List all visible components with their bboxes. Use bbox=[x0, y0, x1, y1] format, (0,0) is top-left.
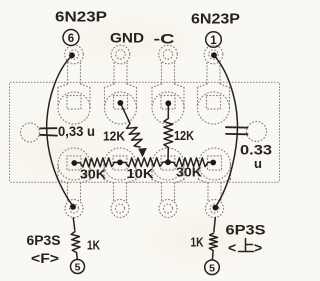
junction dot: bottom lug 4 square bbox=[210, 160, 216, 166]
tag board outline bbox=[10, 82, 280, 182]
junction dot: pin1 lug eyelet bbox=[211, 52, 217, 58]
value label 12K (diagonal resistor) bbox=[103, 129, 126, 144]
label <F> bbox=[31, 250, 59, 266]
resistor 1K (left, to 6P3S F grid pin 5) bbox=[71, 218, 80, 259]
junction dot: GND lug square hole bbox=[118, 100, 124, 106]
top lug 1 (6N23P pin 6) bbox=[58, 45, 90, 124]
node pin 6 circled bbox=[63, 30, 79, 46]
value label 10K bbox=[127, 166, 155, 181]
svg-text:6: 6 bbox=[68, 33, 74, 45]
bottom lug 2 bbox=[104, 148, 136, 218]
svg-text:1K: 1K bbox=[191, 236, 204, 250]
node pin 5 circled (left) bbox=[71, 260, 85, 274]
left side lug bbox=[21, 123, 40, 142]
svg-text:6N23P: 6N23P bbox=[55, 10, 107, 26]
label 6N23P (right tube) bbox=[191, 12, 240, 28]
svg-text:-C: -C bbox=[154, 31, 175, 47]
junction dot: bottom lug 2 square bbox=[117, 160, 123, 166]
svg-text:1K: 1K bbox=[87, 239, 100, 253]
bottom lug 1 (to 6P3S F) bbox=[58, 148, 90, 218]
junction dot: -C lug square hole bbox=[165, 100, 171, 106]
value label 30K (left) bbox=[80, 167, 107, 182]
junction dot: bottom lug 4 eyelet bbox=[213, 205, 219, 211]
bottom lug 3 bbox=[152, 148, 184, 218]
resistor 30K (left, between bottom lugs 1-2) bbox=[74, 158, 120, 167]
svg-text:>: > bbox=[254, 240, 262, 256]
resistor 12K (diagonal, from GND lug to 10K wiper arrow) bbox=[120, 103, 146, 157]
svg-text:6N23P: 6N23P bbox=[191, 12, 240, 28]
top lug 3 (-C) bbox=[152, 45, 184, 124]
svg-text:6P3S: 6P3S bbox=[226, 223, 266, 238]
wire: right arc from 6N23P pin1 lug to bottom lug 4 bbox=[214, 56, 237, 207]
svg-text:u: u bbox=[254, 156, 262, 171]
svg-text:10K: 10K bbox=[127, 166, 155, 181]
label 6P3S (right tube) bbox=[226, 223, 266, 238]
resistor 1K (right, to 6P3S 上 grid pin 5) bbox=[209, 218, 217, 260]
wire: left arc from 6N23P pin6 lug to bottom lug 1 bbox=[47, 56, 73, 206]
value label 1K (right) bbox=[191, 236, 204, 250]
label 6N23P (left tube) bbox=[55, 10, 107, 26]
label -C bbox=[154, 31, 175, 47]
resistor 12K (vertical, from -C lug to bottom lug 3) bbox=[164, 103, 173, 162]
node pin 5 circled (right) bbox=[205, 260, 220, 275]
resistor 10K (between bottom lugs 2-3) bbox=[120, 158, 168, 167]
capacitor C2 0.33u (right) bbox=[226, 127, 248, 134]
value label 0.33 u (C2) bbox=[240, 142, 272, 172]
value label 1K (left) bbox=[87, 239, 100, 253]
svg-text:<: < bbox=[228, 240, 236, 256]
svg-text:6P3S: 6P3S bbox=[27, 233, 61, 248]
svg-text:30K: 30K bbox=[80, 167, 107, 182]
top lug 4 (6N23P pin 1) bbox=[198, 45, 230, 124]
value label 12K (vertical resistor) bbox=[174, 128, 195, 143]
svg-text:0,33 u: 0,33 u bbox=[58, 124, 95, 139]
junction dot: bottom lug 3 square bbox=[165, 159, 171, 165]
capacitor C1 0,33u (left) bbox=[40, 128, 57, 135]
svg-text:5: 5 bbox=[75, 262, 81, 274]
value label 0,33u (C1) bbox=[58, 124, 95, 139]
svg-text:GND: GND bbox=[110, 31, 144, 46]
svg-text:30K: 30K bbox=[176, 165, 203, 180]
svg-text:<F>: <F> bbox=[31, 250, 59, 266]
junction dot: bottom lug 1 eyelet bbox=[70, 204, 76, 210]
bottom lug 4 (to 6P3S 上) bbox=[199, 148, 231, 218]
label 6P3S (left tube) bbox=[27, 233, 61, 248]
junction dot: bottom lug 1 square bbox=[71, 160, 77, 166]
svg-text:12K: 12K bbox=[103, 129, 126, 144]
node pin 1 circled bbox=[206, 32, 222, 48]
svg-text:5: 5 bbox=[209, 263, 215, 275]
svg-text:1: 1 bbox=[210, 35, 217, 47]
value label 30K (right) bbox=[176, 165, 203, 180]
right side lug bbox=[247, 122, 267, 142]
svg-text:12K: 12K bbox=[174, 128, 195, 143]
label GND bbox=[110, 31, 144, 46]
label <上> bbox=[228, 239, 262, 256]
top lug 2 (GND) bbox=[105, 45, 137, 124]
resistor 30K (right, between bottom lugs 3-4) bbox=[168, 158, 213, 167]
junction dot: pin6 lug eyelet bbox=[69, 52, 75, 58]
